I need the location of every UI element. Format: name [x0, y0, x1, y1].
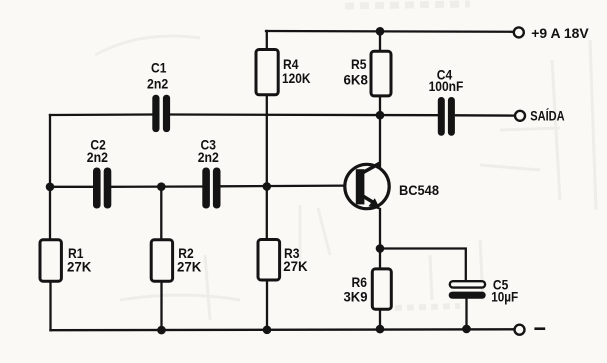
- capacitor C5 electrolytic: [449, 277, 519, 305]
- svg-text:3K9: 3K9: [344, 289, 368, 305]
- svg-text:R5: R5: [351, 56, 366, 72]
- wire left vertical branch: [49, 115, 52, 330]
- svg-text:27K: 27K: [283, 259, 308, 274]
- svg-text:+9 A 18V: +9 A 18V: [531, 25, 589, 41]
- wire R2 vertical: [160, 187, 162, 330]
- svg-text:100nF: 100nF: [429, 78, 464, 94]
- svg-text:10µF: 10µF: [491, 288, 518, 304]
- junction node collector row1: [376, 111, 385, 120]
- transistor Q1 BC548: [345, 163, 440, 210]
- wire R4 branch vertical (top rail to R4, R4 to R3, R3 to bottom rail): [266, 31, 269, 330]
- svg-text:BC548: BC548: [399, 182, 439, 198]
- svg-text:SAÍDA: SAÍDA: [530, 107, 564, 124]
- junction node row2 R2: [157, 182, 166, 191]
- svg-text:6K8: 6K8: [344, 72, 369, 87]
- svg-text:2n2: 2n2: [198, 149, 219, 165]
- capacitor C1: [147, 60, 170, 133]
- wire bottom rail: [51, 328, 514, 331]
- terminal SAIDA: [515, 107, 565, 124]
- wire row1 output line: [50, 115, 514, 116]
- capacitor C2: [87, 137, 111, 209]
- svg-text:27K: 27K: [67, 259, 92, 274]
- junction node row2 left: [46, 183, 55, 192]
- wire row2 base line: [50, 186, 345, 187]
- resistor R4: [256, 50, 311, 95]
- resistor R6: [344, 269, 392, 309]
- svg-text:2n2: 2n2: [147, 76, 168, 92]
- junction node emitter R6: [376, 244, 385, 253]
- junction node R5 top rail: [376, 27, 385, 36]
- wire R6 to C5 link: [380, 249, 466, 282]
- svg-text:C1: C1: [151, 60, 166, 76]
- terminal minus: [515, 325, 546, 335]
- junction node rail R6: [376, 325, 385, 334]
- wire R5 branch vertical (top rail to R5, R5 to collector): [379, 31, 381, 167]
- svg-text:120K: 120K: [282, 70, 311, 86]
- capacitor C3: [198, 137, 221, 209]
- wire top rail: [266, 30, 513, 33]
- resistor R2: [151, 240, 201, 281]
- svg-text:27K: 27K: [177, 259, 202, 274]
- terminal +9 A 18V: [514, 25, 590, 41]
- junction node rail C5: [462, 325, 471, 334]
- resistor R3: [258, 240, 308, 281]
- junction node rail R3: [263, 326, 272, 335]
- resistor R1: [40, 240, 92, 281]
- svg-text:2n2: 2n2: [87, 149, 108, 165]
- junction node row2 R3: [263, 182, 272, 191]
- svg-text:R6: R6: [352, 274, 367, 290]
- junction node rail R2: [157, 326, 166, 335]
- capacitor C4: [429, 67, 464, 136]
- resistor R5: [344, 51, 392, 96]
- wire C5 bottom to rail: [465, 299, 467, 329]
- wire emitter vertical to R6 and bottom rail: [379, 209, 381, 329]
